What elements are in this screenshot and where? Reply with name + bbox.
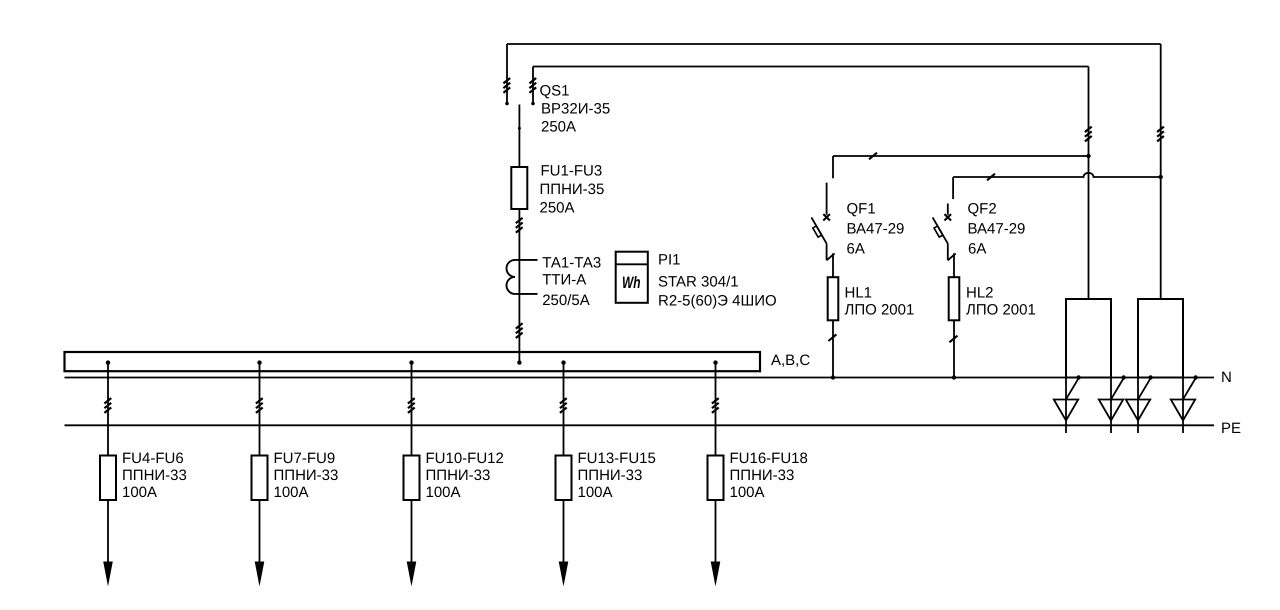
svg-text:250А: 250А <box>540 199 575 216</box>
svg-text:250/5А: 250/5А <box>542 292 590 309</box>
svg-text:6А: 6А <box>847 240 865 257</box>
svg-text:STAR 304/1: STAR 304/1 <box>658 274 739 291</box>
svg-text:ЛПО 2001: ЛПО 2001 <box>966 302 1036 319</box>
svg-text:100А: 100А <box>578 484 613 501</box>
svg-text:100А: 100А <box>274 484 309 501</box>
svg-text:Wh: Wh <box>622 274 641 292</box>
svg-text:HL1: HL1 <box>845 285 873 302</box>
svg-text:ППНИ-33: ППНИ-33 <box>578 467 643 484</box>
svg-text:ППНИ-33: ППНИ-33 <box>730 467 795 484</box>
svg-text:ТА1-ТА3: ТА1-ТА3 <box>542 254 601 271</box>
svg-text:6А: 6А <box>968 240 986 257</box>
svg-text:HL2: HL2 <box>966 285 994 302</box>
svg-text:ВА47-29: ВА47-29 <box>968 220 1026 237</box>
svg-text:FU16-FU18: FU16-FU18 <box>730 450 808 467</box>
svg-text:FU13-FU15: FU13-FU15 <box>578 450 656 467</box>
svg-text:PE: PE <box>1221 420 1241 437</box>
svg-text:ВА47-29: ВА47-29 <box>847 220 905 237</box>
svg-text:250А: 250А <box>541 118 576 135</box>
svg-text:100А: 100А <box>730 484 765 501</box>
svg-text:100А: 100А <box>122 484 157 501</box>
svg-text:FU10-FU12: FU10-FU12 <box>426 450 504 467</box>
svg-text:R2-5(60)Э 4ШИО: R2-5(60)Э 4ШИО <box>658 293 777 310</box>
svg-text:N: N <box>1221 369 1232 386</box>
svg-text:FU1-FU3: FU1-FU3 <box>541 162 603 179</box>
svg-text:ТТИ-А: ТТИ-А <box>542 272 586 289</box>
svg-text:100А: 100А <box>426 484 461 501</box>
svg-text:ППНИ-33: ППНИ-33 <box>122 467 187 484</box>
svg-text:PI1: PI1 <box>658 251 681 268</box>
svg-text:QF2: QF2 <box>968 200 997 217</box>
svg-text:А,В,С: А,В,С <box>771 352 810 369</box>
svg-text:ППНИ-33: ППНИ-33 <box>426 467 491 484</box>
svg-text:ППНИ-33: ППНИ-33 <box>274 467 339 484</box>
svg-text:ЛПО 2001: ЛПО 2001 <box>845 302 915 319</box>
svg-text:QS1: QS1 <box>540 82 570 99</box>
svg-text:FU7-FU9: FU7-FU9 <box>274 450 336 467</box>
svg-text:QF1: QF1 <box>847 200 876 217</box>
svg-text:ППНИ-35: ППНИ-35 <box>540 181 605 198</box>
svg-text:FU4-FU6: FU4-FU6 <box>122 450 184 467</box>
svg-text:ВР32И-35: ВР32И-35 <box>541 100 610 117</box>
